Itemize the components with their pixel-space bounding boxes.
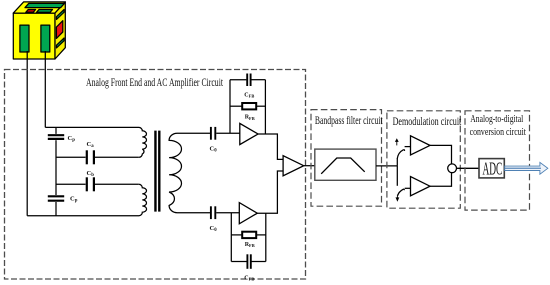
demod input vertical wire [396,158,398,166]
transformer T1 secondary winding [169,133,210,213]
arrow down (bottom switch control) [396,195,400,202]
op-amp A5 (demod bottom) [411,177,431,196]
dashed box: Analog Front End and AC Amplifier Circuit [5,70,306,280]
demod lower vertical wire [396,166,398,186]
svg-text:RFB: RFB [245,115,255,121]
svg-text:RFB: RFB [245,242,255,248]
feedback network top: wires [230,80,265,134]
svg-text:conversion circuit: conversion circuit [470,126,526,138]
dashed box: Demodulation circuit [387,111,460,208]
capacitor Cp (bottom) [48,196,78,204]
summing node (circle) [448,164,457,173]
wire row 1 (to Ca) [56,156,139,158]
capacitor CFB (bottom) [244,254,254,281]
op-amp A1 (top) [240,123,258,144]
resistor RFB (bottom) [242,232,256,249]
capacitor Cp (top) [48,135,75,143]
wire demod to ADC [457,167,480,169]
transformer T1 primary winding (top) with top rail [45,127,146,157]
wire from sensor left electrode down to bottom rail [26,51,28,216]
resistor RFB (top) [242,103,256,121]
svg-text:CFB: CFB [244,275,254,281]
op-amp A4 (demod top) [411,136,431,155]
sensor S1 (capacitive sensor cube) [13,2,65,59]
svg-text:Bandpass filter circuit: Bandpass filter circuit [315,115,383,127]
switch SW2 (bottom) [398,189,405,195]
dashed box: Bandpass filter circuit [311,110,382,207]
capacitor Cb [87,170,95,192]
capacitor C0 (bottom) [210,206,218,233]
op-amp A3 (summing) [283,156,304,176]
op-amp A2 (bottom) [239,203,257,224]
svg-text:Demodulation circuit: Demodulation circuit [393,116,462,128]
wire demod bottom amp to summing node [430,173,452,186]
transformer T1 primary winding (bottom) with bottom rail [27,184,146,215]
wire ladder vertical (node between Cp caps) [55,127,57,215]
wire C0 bottom to op-amp A2 [216,212,239,214]
bandpass filter block [315,149,376,180]
wire C0 top to op-amp A1 [216,132,240,134]
wire from sensor right electrode down to top rail [44,51,46,127]
arrow up (top switch control) [395,138,399,145]
wire bandpass to demodulation [376,165,397,167]
svg-text:Analog-to-digital: Analog-to-digital [470,113,523,125]
wire summing amp to bandpass filter [304,165,315,167]
capacitor CFB (top) [244,74,254,99]
switch SW1 (top) [397,150,404,159]
svg-text:Analog Front End and AC Amplif: Analog Front End and AC Amplifier Circui… [86,75,223,89]
wire row 2 (to Cb) [56,183,139,185]
capacitor Ca [87,141,95,165]
transformer T1 core [154,131,156,212]
ADC block [479,159,504,178]
svg-text:CFB: CFB [244,93,254,99]
dashed box: Analog-to-digital conversion circuit [465,111,530,210]
wire demod top amp to summing node [430,145,452,163]
wire op-amp A2 output to summing amp [257,171,283,213]
capacitor C0 (top) [210,127,218,154]
wire op-amp A1 output to summing amp [258,134,283,159]
svg-text:ADC: ADC [483,159,503,179]
bandpass response curve [321,158,365,174]
feedback network bottom: wires [231,213,265,262]
digital output block arrow [505,162,548,174]
